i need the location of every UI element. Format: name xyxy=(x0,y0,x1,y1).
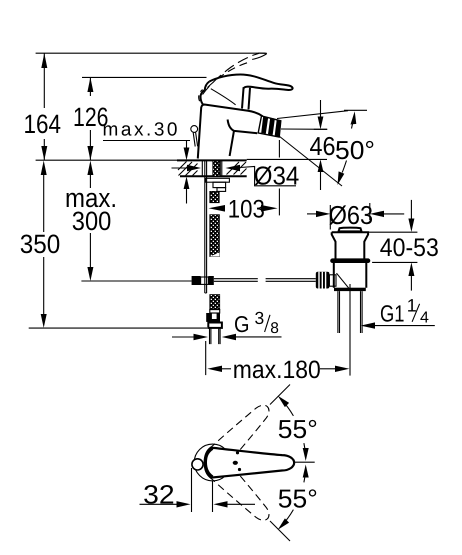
faucet spout underside xyxy=(228,120,258,134)
svg-text:55°: 55° xyxy=(278,414,318,444)
dimension 50 deg arrows xyxy=(338,111,357,185)
svg-text:164: 164 xyxy=(24,109,62,139)
dimension max.180 xyxy=(206,341,350,375)
deck cross-section top line xyxy=(177,159,247,161)
dimension max.300 line xyxy=(87,161,93,282)
dimension max.30 xyxy=(103,141,190,204)
label G1 1/4 xyxy=(380,296,429,327)
top view lever centerline xyxy=(295,461,315,463)
pop-up linkage fitting xyxy=(192,276,214,285)
wire deck level reference line left xyxy=(36,159,177,161)
svg-text:46: 46 xyxy=(310,131,336,161)
faucet lever neck xyxy=(242,87,250,109)
waste seal ring xyxy=(330,258,370,263)
faucet lever base dome xyxy=(201,90,205,105)
wire max.300 bottom boundary line xyxy=(81,280,191,282)
waste plug knob xyxy=(339,228,362,232)
supply hose end fitting xyxy=(206,310,220,322)
svg-text:Ø63: Ø63 xyxy=(329,200,374,230)
supply hose braided upper texture xyxy=(210,253,220,257)
svg-text:G: G xyxy=(234,311,250,337)
wire deck level reference line right xyxy=(247,158,327,160)
top view dashed lever down and 55deg annotation (mirror) xyxy=(209,460,308,541)
faucet pull rod knob xyxy=(191,126,198,147)
dimension G1 1/4 leader xyxy=(361,322,435,328)
wire spout angle line lower xyxy=(279,136,342,186)
supply hose G3/8 hex nut xyxy=(208,323,222,328)
faucet body right edge xyxy=(230,131,234,156)
svg-text:8: 8 xyxy=(270,320,279,337)
dimension 32 xyxy=(140,468,256,512)
faucet mounting washer and nut xyxy=(206,178,230,191)
pop-up waste centerline xyxy=(349,284,351,376)
faucet aerator xyxy=(258,116,281,137)
svg-text:300: 300 xyxy=(72,206,112,236)
svg-text:1: 1 xyxy=(407,296,417,316)
waste body bottom band xyxy=(334,288,366,291)
dimension 350 line xyxy=(41,161,47,328)
top view dashed lever up and 55deg annotation xyxy=(209,385,308,466)
svg-text:3: 3 xyxy=(255,308,265,328)
faucet shank threaded (cross-hatched) xyxy=(202,161,222,203)
svg-text:103: 103 xyxy=(228,196,265,224)
wire aerator outlet projection line xyxy=(281,128,327,130)
faucet dome front edge xyxy=(211,89,236,105)
faucet lever left end xyxy=(205,82,210,91)
svg-text:max.180: max.180 xyxy=(233,356,321,384)
svg-text:4: 4 xyxy=(420,310,429,327)
wire top reference line (lever max height) xyxy=(36,52,266,54)
top view solid lever xyxy=(205,448,294,478)
supply hose braided upper xyxy=(210,215,220,257)
wire 103 right extension line xyxy=(278,140,280,158)
dimension D63 xyxy=(307,203,404,230)
top view lever indicator dash xyxy=(233,461,238,465)
deck cross-section bottom line xyxy=(180,175,247,177)
faucet lever raised dashed xyxy=(199,53,267,101)
top view lever back crescent xyxy=(206,448,213,477)
waste side knob knurled xyxy=(316,272,349,289)
top view pull rod knob xyxy=(192,459,203,470)
svg-text:55°: 55° xyxy=(278,484,318,514)
svg-text:40-53: 40-53 xyxy=(380,234,439,262)
dimension G3/8 arrows xyxy=(172,334,282,340)
waste body lower xyxy=(334,263,367,288)
dimension 40-53 xyxy=(368,200,417,291)
dimension D34 leader xyxy=(172,165,297,186)
svg-text:Ø34: Ø34 xyxy=(254,161,299,191)
dimension 126 line xyxy=(87,77,93,160)
wire 126 reference line xyxy=(82,76,207,78)
wire 350 bottom boundary line xyxy=(29,327,207,329)
dimension 46 xyxy=(314,100,327,190)
svg-text:max.30: max.30 xyxy=(103,120,178,141)
waste tailpipe xyxy=(338,291,362,333)
dimension 103 xyxy=(209,205,278,212)
top view lever dots xyxy=(236,451,239,454)
svg-text:50°: 50° xyxy=(335,135,375,165)
deck hatching xyxy=(178,162,247,176)
svg-text:32: 32 xyxy=(143,480,175,510)
pop-up linkage horizontal rod xyxy=(214,279,316,282)
svg-text:350: 350 xyxy=(20,229,61,259)
waste flange xyxy=(332,232,368,259)
top view body circle xyxy=(194,444,231,481)
wire spout angle line upper xyxy=(277,110,367,118)
faucet body outline xyxy=(198,105,263,159)
supply hose braided lower xyxy=(210,295,220,310)
faucet lever solid xyxy=(209,75,292,90)
label G3/8 xyxy=(234,308,279,337)
dimension 164 line xyxy=(41,53,47,160)
svg-text:G1: G1 xyxy=(380,301,405,327)
faucet pop-up rod vertical xyxy=(205,161,207,293)
supply hose G3/8 thread xyxy=(210,328,221,344)
